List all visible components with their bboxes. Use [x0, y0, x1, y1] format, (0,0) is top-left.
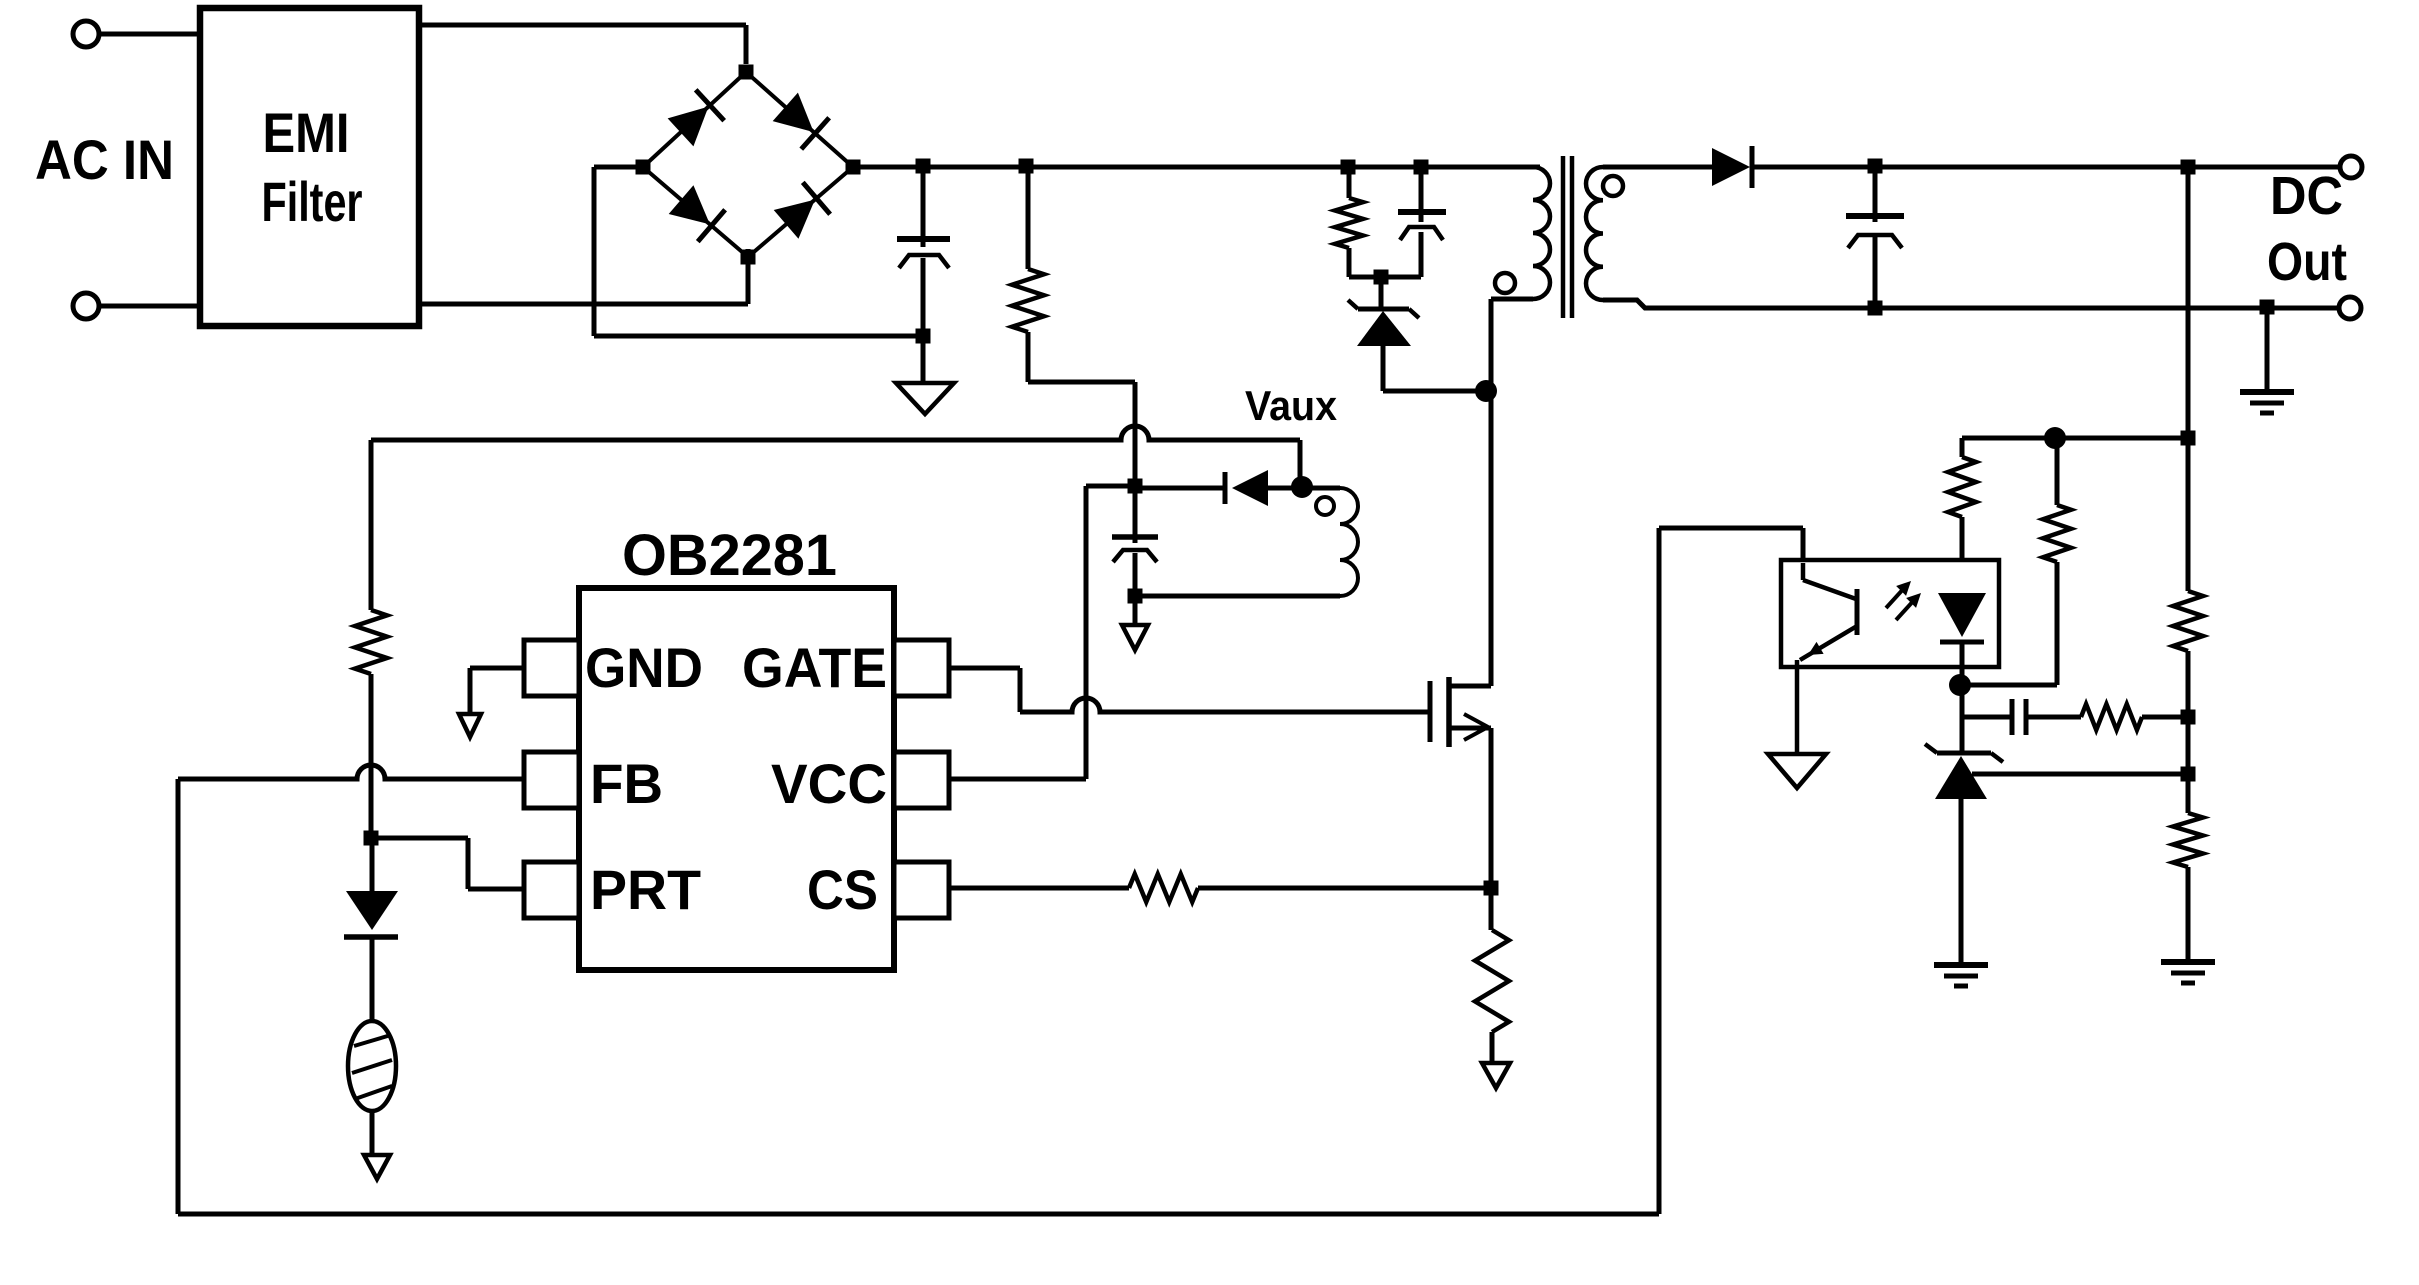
node: [1019, 159, 1034, 174]
diode D2 bridge top-right: [746, 72, 853, 167]
wire: [1349, 275, 1421, 280]
transformer aux winding: [1340, 488, 1358, 596]
pin FB: [524, 752, 663, 815]
zener D-clamp: [1348, 300, 1419, 391]
pin GATE: [742, 636, 949, 699]
label AC IN: [35, 128, 174, 191]
node bridge left: [636, 160, 651, 175]
wire: [2186, 867, 2191, 960]
resistor R-fb-lower: [2173, 813, 2203, 867]
wire: [1379, 277, 1384, 309]
wire: [2186, 651, 2191, 813]
wire CS pin: [949, 886, 1129, 891]
wire main DC rail: [853, 165, 1540, 170]
node: [1128, 479, 1143, 494]
node: [1868, 301, 1883, 316]
svg-text:GATE: GATE: [742, 636, 887, 699]
node: [2181, 160, 2196, 175]
wire bias rail: [1962, 436, 2188, 441]
transistor Q1 MOSFET: [1430, 677, 1491, 747]
svg-text:AC IN: AC IN: [35, 128, 174, 191]
transformer core: [1563, 156, 1572, 318]
svg-text:GND: GND: [585, 636, 703, 699]
svg-text:Filter: Filter: [262, 170, 363, 233]
resistor R-led: [1948, 438, 1976, 593]
svg-text:OB2281: OB2281: [622, 523, 837, 588]
wire: [2142, 715, 2188, 720]
capacitor C-snubber: [1398, 167, 1446, 277]
node: [2181, 767, 2196, 782]
pin GND: [524, 636, 703, 699]
diode D4 bridge bottom-right: [748, 167, 853, 257]
wire primary to drain: [1489, 299, 1494, 686]
wire ground rail: [594, 334, 923, 339]
transformer primary winding: [1533, 167, 1550, 299]
node bridge top: [739, 65, 754, 80]
thermistor RT-prt: [348, 1021, 396, 1154]
ground: [1768, 754, 1826, 788]
resistor R-sense: [1475, 888, 1509, 1062]
wire: [419, 249, 748, 304]
svg-text:Out: Out: [2267, 232, 2347, 292]
phase dot secondary: [1603, 176, 1623, 196]
wire: [419, 25, 746, 64]
pin VCC: [771, 752, 949, 815]
resistor R-snubber: [1335, 167, 1363, 277]
capacitor C-out: [1846, 167, 1904, 308]
wire: [1489, 728, 1494, 888]
resistor R-bias: [1960, 438, 2071, 685]
wire: [1960, 685, 1965, 753]
node: [1868, 159, 1883, 174]
wire secondary return: [1603, 300, 2350, 308]
node: [1414, 160, 1429, 175]
node: [916, 329, 931, 344]
wire divider: [2186, 167, 2191, 591]
wire: [1603, 165, 1712, 170]
wire Vaux rail: [371, 426, 1300, 480]
node: [2260, 300, 2275, 315]
svg-text:EMI: EMI: [263, 101, 350, 164]
ground: [1122, 596, 1148, 650]
pin PRT: [524, 858, 701, 921]
terminal AC input neutral: [73, 293, 99, 319]
ground: [1934, 965, 1988, 986]
resistor R-fb-upper: [2173, 591, 2203, 651]
node: [916, 159, 931, 174]
EMI filter block: [200, 8, 419, 326]
transformer secondary winding: [1586, 167, 1603, 300]
wire: [1198, 886, 1491, 891]
node: [1475, 380, 1497, 402]
node: [1484, 881, 1499, 896]
ground: [2161, 962, 2215, 983]
wire: [1028, 382, 1135, 486]
wire FB pin: [178, 765, 524, 779]
label OB2281: [622, 523, 837, 588]
optocoupler light arrows: [1886, 581, 1921, 620]
ground: [1482, 1063, 1510, 1088]
optocoupler phototransistor: [1797, 563, 1857, 754]
node bridge right: [846, 160, 861, 175]
wire: [1657, 528, 1662, 1214]
node: [1341, 160, 1356, 175]
capacitor C-bulk: [897, 167, 950, 336]
svg-text:DC: DC: [2270, 166, 2343, 226]
svg-text:VCC: VCC: [771, 752, 887, 815]
svg-text:CS: CS: [807, 858, 878, 921]
wire: [1491, 297, 1533, 302]
node: [2044, 427, 2066, 449]
optocoupler U2 body: [1781, 560, 1999, 667]
phase dot primary: [1495, 273, 1515, 293]
ground: [459, 714, 481, 737]
wire VCC pin: [949, 486, 1135, 779]
resistor R-comp: [2081, 704, 2142, 730]
label DC: [2270, 166, 2343, 226]
diode D-out: [1712, 146, 2351, 188]
wire: [99, 32, 200, 37]
capacitor C-vcc: [1112, 486, 1158, 596]
node Vaux: [1291, 476, 1313, 498]
terminal DC Out +: [2340, 156, 2362, 178]
ground: [2240, 308, 2294, 413]
svg-text:FB: FB: [590, 752, 663, 815]
diode D-prt TVS: [344, 838, 398, 1021]
ground: [364, 1155, 390, 1179]
pin CS: [807, 858, 949, 921]
node: [1949, 674, 1971, 696]
ground: [896, 336, 954, 414]
wire: [1962, 715, 2012, 720]
diode D1 bridge top-left: [643, 72, 746, 167]
svg-text:PRT: PRT: [590, 858, 701, 921]
terminal AC input line: [73, 21, 99, 47]
phase dot aux: [1316, 497, 1334, 515]
node: [2181, 710, 2196, 725]
label Out: [2267, 232, 2347, 292]
wire: [1659, 528, 1803, 563]
wire GATE pin: [949, 668, 1430, 712]
wire: [470, 668, 524, 713]
resistor R-divider-vaux: [355, 440, 387, 838]
capacitor C-comp: [2012, 699, 2081, 735]
resistor R-cs: [1129, 874, 1198, 902]
wire: [99, 304, 200, 309]
wire: [1135, 488, 1340, 596]
diode D-vcc: [1135, 470, 1302, 506]
node: [1374, 270, 1389, 285]
wire: [1383, 389, 1486, 394]
resistor R-startup: [1012, 167, 1044, 382]
zener U3 TL431: [1925, 744, 2003, 963]
node: [1128, 589, 1143, 604]
node: [2181, 431, 2196, 446]
optocoupler LED: [1938, 593, 1986, 685]
svg-text:Vaux: Vaux: [1245, 382, 1338, 429]
node: [364, 831, 379, 846]
wire bottom feedback rail: [178, 1212, 1659, 1217]
wire PRT pin: [371, 838, 524, 889]
wire: [594, 167, 643, 336]
node bridge bottom: [741, 250, 756, 265]
op-amp U1 OB2281 body: [579, 588, 894, 970]
terminal DC Out -: [2339, 297, 2361, 319]
wire: [176, 779, 181, 1214]
label Vaux: [1245, 382, 1338, 429]
wire TL431 ref: [1972, 772, 2188, 777]
diode D3 bridge bottom-left: [643, 167, 748, 257]
